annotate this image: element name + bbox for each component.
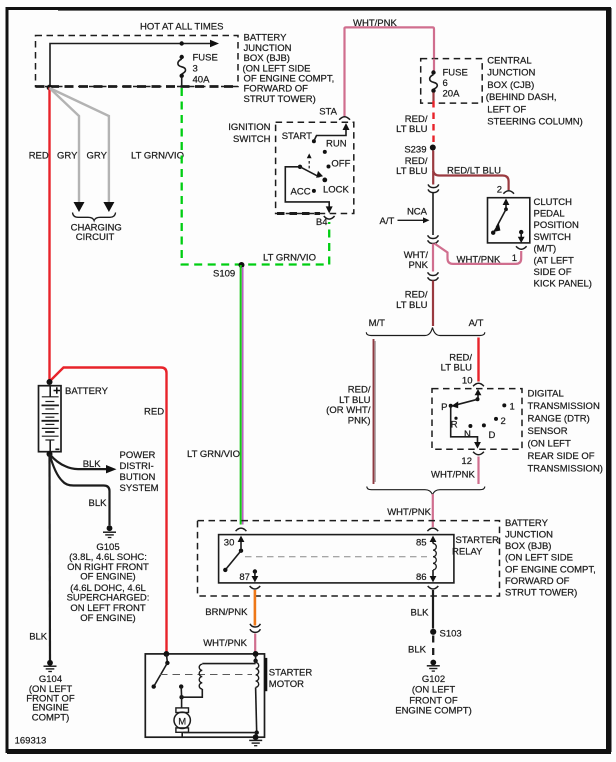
svg-text:(AT LEFT: (AT LEFT	[534, 255, 574, 266]
svg-text:1: 1	[512, 253, 517, 264]
svg-text:LT GRN/VIO: LT GRN/VIO	[187, 449, 240, 460]
svg-text:RED: RED	[144, 407, 164, 418]
svg-text:CENTRAL: CENTRAL	[487, 56, 531, 67]
svg-text:BRN/PNK: BRN/PNK	[205, 607, 248, 618]
svg-text:85: 85	[416, 537, 427, 548]
svg-text:B4: B4	[316, 217, 328, 228]
svg-text:12: 12	[461, 456, 472, 467]
svg-text:JUNCTION: JUNCTION	[487, 68, 535, 79]
svg-text:STARTER: STARTER	[456, 535, 500, 546]
svg-text:10: 10	[462, 375, 473, 386]
svg-text:40A: 40A	[193, 75, 211, 86]
svg-text:DISTRI-: DISTRI-	[120, 461, 154, 472]
svg-text:COMPT): COMPT)	[32, 713, 69, 724]
svg-text:WHT/PNK: WHT/PNK	[203, 638, 247, 649]
svg-text:START: START	[282, 131, 312, 142]
svg-text:SYSTEM: SYSTEM	[120, 483, 159, 494]
svg-text:A/T: A/T	[380, 216, 395, 227]
svg-text:ACC: ACC	[291, 186, 311, 197]
svg-text:N: N	[464, 429, 471, 440]
svg-text:(ON LEFT: (ON LEFT	[412, 684, 455, 695]
svg-text:M/T: M/T	[369, 318, 386, 329]
svg-text:D: D	[489, 430, 496, 441]
svg-text:(BEHIND DASH,: (BEHIND DASH,	[486, 92, 557, 103]
svg-text:87: 87	[239, 572, 250, 583]
svg-text:BUTION: BUTION	[120, 472, 156, 483]
svg-text:3: 3	[193, 64, 198, 75]
svg-text:TRANSMISSION: TRANSMISSION	[528, 401, 600, 412]
svg-text:POWER: POWER	[120, 450, 156, 461]
svg-text:1: 1	[510, 401, 515, 412]
svg-text:LT BLU: LT BLU	[396, 300, 427, 311]
svg-text:BLK: BLK	[408, 645, 427, 656]
svg-text:2: 2	[497, 185, 502, 196]
svg-text:STRUT TOWER): STRUT TOWER)	[244, 94, 316, 105]
svg-text:SUPERCHARGED:: SUPERCHARGED:	[67, 593, 150, 604]
svg-text:SWITCH: SWITCH	[233, 134, 271, 145]
svg-text:BOX (BJB): BOX (BJB)	[505, 541, 551, 552]
svg-text:DIGITAL: DIGITAL	[528, 389, 564, 400]
svg-text:S239: S239	[404, 144, 426, 155]
svg-text:LT BLU: LT BLU	[396, 166, 427, 177]
svg-text:KICK PANEL): KICK PANEL)	[534, 279, 592, 290]
svg-text:REAR SIDE OF: REAR SIDE OF	[528, 451, 595, 462]
svg-text:86: 86	[416, 572, 427, 583]
svg-text:LOCK: LOCK	[323, 185, 350, 196]
svg-text:R: R	[451, 420, 458, 431]
svg-text:(M/T): (M/T)	[534, 244, 557, 255]
svg-text:RANGE (DTR): RANGE (DTR)	[528, 414, 590, 425]
svg-text:SENSOR: SENSOR	[528, 426, 568, 437]
svg-text:LEFT OF: LEFT OF	[487, 104, 526, 115]
svg-text:BLK: BLK	[83, 459, 102, 470]
svg-text:WHT/PNK: WHT/PNK	[457, 254, 501, 265]
svg-text:SWITCH: SWITCH	[534, 232, 572, 243]
svg-text:RELAY: RELAY	[452, 547, 483, 558]
svg-text:169313: 169313	[15, 736, 47, 747]
svg-text:LT GRN/VIO: LT GRN/VIO	[263, 252, 316, 263]
svg-text:30: 30	[224, 537, 235, 548]
svg-text:STARTER: STARTER	[269, 667, 313, 678]
svg-text:P: P	[441, 402, 447, 413]
svg-text:OF ENGINE): OF ENGINE)	[80, 571, 135, 582]
svg-text:A/T: A/T	[469, 318, 484, 329]
svg-text:BOX (CJB): BOX (CJB)	[487, 80, 534, 91]
svg-text:RED: RED	[29, 151, 49, 162]
svg-text:CLUTCH: CLUTCH	[534, 197, 573, 208]
svg-text:STEERING COLUMN): STEERING COLUMN)	[487, 117, 583, 128]
svg-text:BLK: BLK	[411, 607, 430, 618]
svg-text:(ON LEFT SIDE: (ON LEFT SIDE	[505, 553, 573, 564]
svg-text:LT GRN/VIO: LT GRN/VIO	[131, 151, 184, 162]
svg-text:IGNITION: IGNITION	[228, 122, 270, 133]
svg-text:STRUT TOWER): STRUT TOWER)	[505, 588, 577, 599]
svg-text:S109: S109	[213, 269, 235, 280]
svg-text:FORWARD OF: FORWARD OF	[505, 576, 570, 587]
svg-text:WHT/PNK: WHT/PNK	[387, 507, 431, 518]
svg-text:M: M	[178, 717, 186, 728]
svg-text:HOT AT ALL TIMES: HOT AT ALL TIMES	[140, 22, 223, 33]
svg-text:PNK: PNK	[408, 260, 428, 271]
svg-text:GRY: GRY	[87, 151, 108, 162]
svg-text:LT BLU: LT BLU	[396, 124, 427, 135]
svg-text:CIRCUIT: CIRCUIT	[76, 232, 115, 243]
svg-text:JUNCTION: JUNCTION	[505, 530, 553, 541]
svg-text:ENGINE COMPT): ENGINE COMPT)	[395, 705, 472, 716]
svg-text:BATTERY: BATTERY	[505, 518, 549, 529]
svg-text:BLK: BLK	[89, 498, 108, 509]
svg-text:OFF: OFF	[331, 158, 350, 169]
svg-text:TRANSMISSION): TRANSMISSION)	[528, 464, 603, 475]
svg-text:RUN: RUN	[326, 138, 347, 149]
svg-text:OF ENGINE COMPT,: OF ENGINE COMPT,	[505, 564, 596, 575]
svg-text:(ON LEFT: (ON LEFT	[528, 439, 571, 450]
svg-text:BLK: BLK	[29, 632, 48, 643]
svg-text:WHT/PNK: WHT/PNK	[431, 470, 475, 481]
svg-text:STA: STA	[319, 107, 337, 118]
svg-text:FUSE: FUSE	[193, 53, 218, 64]
svg-text:S103: S103	[440, 629, 462, 640]
svg-text:LT BLU: LT BLU	[441, 363, 472, 374]
svg-text:SIDE OF: SIDE OF	[534, 267, 572, 278]
svg-text:FUSE: FUSE	[443, 68, 468, 79]
svg-text:MOTOR: MOTOR	[269, 679, 304, 690]
svg-text:POSITION: POSITION	[534, 220, 580, 231]
svg-text:BATTERY: BATTERY	[65, 386, 109, 397]
svg-text:NCA: NCA	[407, 206, 428, 217]
svg-text:PEDAL: PEDAL	[534, 209, 565, 220]
svg-text:GRY: GRY	[57, 151, 78, 162]
svg-text:2: 2	[501, 416, 506, 427]
svg-text:20A: 20A	[443, 88, 461, 99]
svg-text:RED/LT BLU: RED/LT BLU	[447, 166, 501, 177]
svg-text:PNK): PNK)	[348, 415, 371, 426]
svg-text:OF ENGINE): OF ENGINE)	[80, 613, 135, 624]
